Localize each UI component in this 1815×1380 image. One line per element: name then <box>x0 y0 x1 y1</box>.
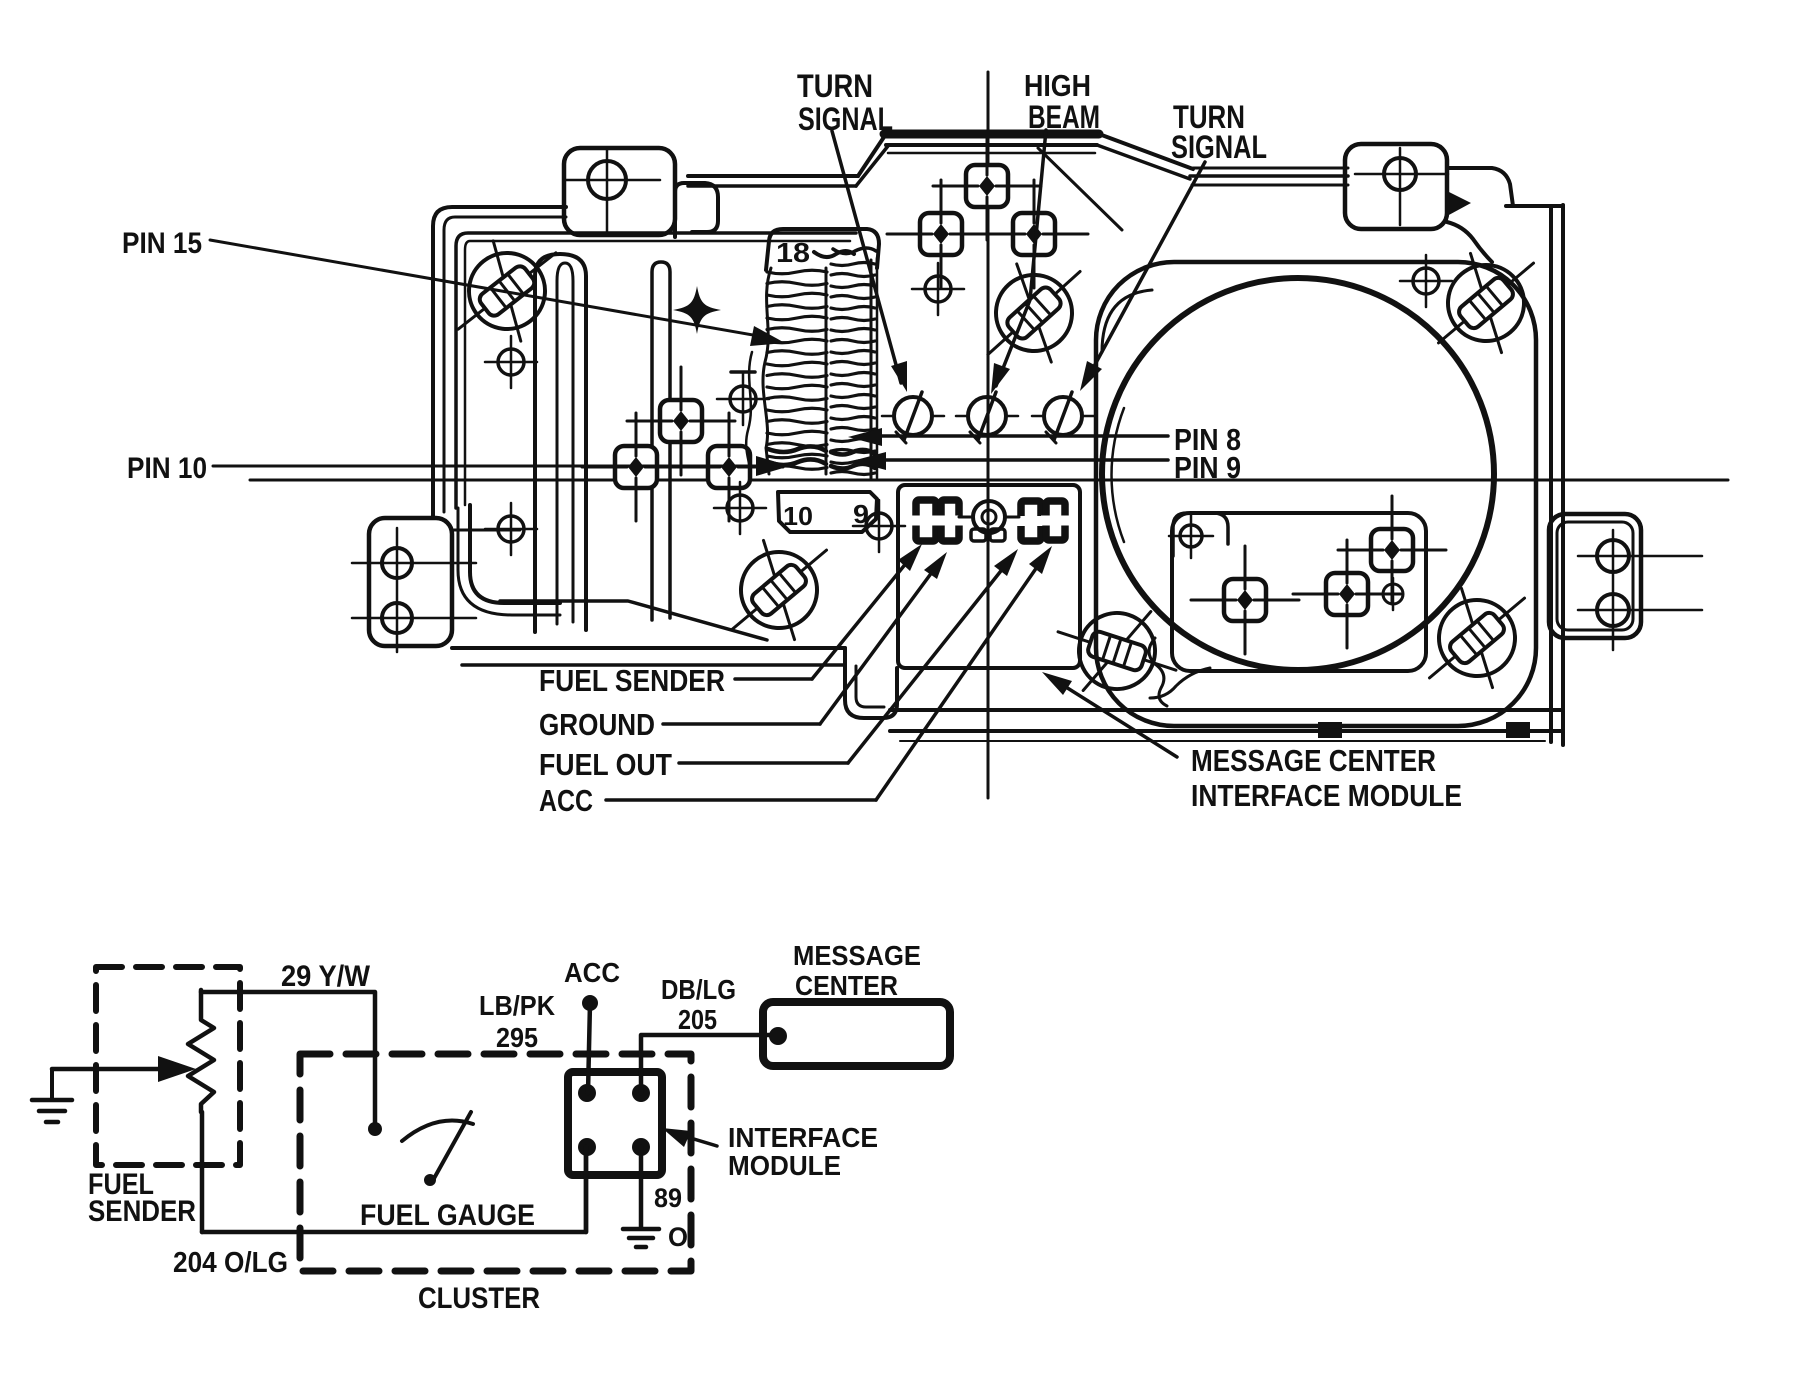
odometer plate <box>1172 513 1426 671</box>
acc leader <box>606 798 876 802</box>
svg-text:MESSAGE: MESSAGE <box>793 940 921 971</box>
cluster top edge: right peak slope <box>1099 134 1193 169</box>
cluster top edge: peak band <box>884 130 1099 139</box>
svg-text:205: 205 <box>678 1004 717 1035</box>
svg-text:89: 89 <box>654 1183 682 1213</box>
fuel out leader <box>679 761 848 765</box>
wire 29 Y/W <box>201 992 375 1122</box>
tab hook piece <box>675 183 718 237</box>
ground symbol fuel sender <box>50 1069 54 1099</box>
message center interface module box <box>898 485 1080 668</box>
high beam leader <box>996 130 1046 386</box>
flex ribbon right column <box>831 263 875 266</box>
turn signal right leader <box>1085 162 1205 383</box>
svg-text:CLUSTER: CLUSTER <box>418 1282 540 1315</box>
svg-text:CENTER: CENTER <box>795 970 898 1001</box>
svg-text:SIGNAL: SIGNAL <box>1171 129 1267 165</box>
fuel sender leader <box>735 677 812 681</box>
bottom-left pin stem <box>584 1147 589 1232</box>
svg-text:DB/LG: DB/LG <box>661 974 736 1005</box>
svg-text:TURN: TURN <box>797 68 873 104</box>
display center cross symbol <box>959 501 1019 533</box>
svg-text:29 Y/W: 29 Y/W <box>281 960 371 993</box>
plate squares <box>1191 546 1299 654</box>
speedometer opening circle <box>1102 278 1494 670</box>
bolt holes bottom-left tab <box>382 548 412 578</box>
PIN 9 leader <box>870 458 1168 462</box>
inner bottom-left corner <box>470 505 560 603</box>
module pins <box>578 1084 596 1102</box>
interface module box <box>568 1072 662 1175</box>
message center module leader <box>1050 677 1177 757</box>
torn squiggle bottom-left of plate <box>1149 638 1167 706</box>
svg-text:FUEL GAUGE: FUEL GAUGE <box>360 1199 535 1232</box>
PIN 8 leader <box>866 434 1168 438</box>
svg-text:10: 10 <box>783 501 813 531</box>
fuel gauge needle <box>402 1120 473 1141</box>
bolt hole top-left tab <box>588 161 626 199</box>
wedge right of tab <box>1447 191 1471 216</box>
svg-text:ACC: ACC <box>539 783 593 818</box>
mounting tab top-right <box>1345 144 1447 229</box>
lamp socket mount squares left <box>627 367 735 475</box>
interface module label leader <box>674 1133 717 1146</box>
turn signal lamp socket left <box>882 392 944 443</box>
svg-text:18: 18 <box>776 237 810 268</box>
svg-text:O: O <box>668 1222 688 1252</box>
twist-lock connector bottom-center <box>1043 586 1191 716</box>
four-point star <box>673 286 721 334</box>
resistor R fuel sender <box>188 990 214 1112</box>
seven segment digits 00 <box>916 500 936 541</box>
svg-text:SENDER: SENDER <box>88 1195 196 1228</box>
svg-text:ACC: ACC <box>564 957 620 988</box>
twist-lock connector center <box>956 236 1112 390</box>
flex ribbon tag 10 9 <box>778 492 877 532</box>
svg-text:MODULE: MODULE <box>728 1150 841 1181</box>
PIN 10 leader <box>213 465 772 468</box>
ground leader <box>663 722 820 726</box>
svg-text:204 O/LG: 204 O/LG <box>173 1247 288 1279</box>
svg-text:PIN 10: PIN 10 <box>127 452 207 485</box>
svg-text:INTERFACE MODULE: INTERFACE MODULE <box>1191 778 1462 813</box>
bottom edge left section <box>452 646 845 650</box>
module ground stem <box>639 1147 644 1227</box>
svg-text:LB/PK: LB/PK <box>479 990 555 1021</box>
mounting tab bottom-left <box>369 518 452 646</box>
twist-lock connector top-right <box>1408 226 1565 379</box>
svg-text:INTERFACE: INTERFACE <box>728 1122 878 1153</box>
inner channel (goalpost) <box>535 254 586 632</box>
cluster top edge: right band <box>1193 167 1348 170</box>
cluster top edge: left roof <box>688 174 858 178</box>
ACC terminal dot and stem <box>582 995 598 1011</box>
turn signal left leader <box>832 131 901 383</box>
ground symbol module <box>623 1227 659 1232</box>
twist-lock connector bottom-right <box>1399 561 1556 714</box>
bottom center hook <box>845 648 897 718</box>
svg-text:FUEL SENDER: FUEL SENDER <box>539 663 725 698</box>
cluster body outline: left outer frame <box>433 207 566 516</box>
torn edge squiggle <box>746 352 752 480</box>
svg-text:SIGNAL: SIGNAL <box>798 101 893 137</box>
turn signal lamp socket right <box>1032 392 1094 443</box>
small cross-circle symbols <box>485 336 537 388</box>
bottom edge right section rails <box>890 708 1562 712</box>
wire ground to resistor wiper <box>52 1067 158 1072</box>
wire: horizontal centerline <box>250 479 1728 482</box>
flex ribbon connector tag 18 <box>766 229 879 270</box>
svg-text:MESSAGE CENTER: MESSAGE CENTER <box>1191 743 1436 778</box>
cluster body outline: left inner frame <box>456 233 856 508</box>
shoulder curve into bezel <box>1447 222 1492 262</box>
flex ribbon left column <box>767 270 827 274</box>
wire resistor bottom down <box>200 1112 205 1232</box>
svg-text:PIN 15: PIN 15 <box>122 227 202 260</box>
fuel sender dashed box <box>96 967 240 1165</box>
gauge terminal dot <box>368 1122 382 1136</box>
high beam lamp socket <box>956 392 1018 443</box>
right bezel rounded square <box>1096 262 1536 726</box>
lamp socket mount squares top <box>887 180 995 288</box>
bolt holes bottom-right tab <box>1597 540 1629 572</box>
wire 204 O/LG bottom run <box>202 1150 586 1232</box>
svg-text:9: 9 <box>853 499 869 529</box>
twist-lock connector top-left <box>429 215 586 367</box>
cluster top edge: left peak slope <box>858 134 886 176</box>
svg-text:GROUND: GROUND <box>539 707 655 742</box>
svg-text:295: 295 <box>496 1022 538 1053</box>
bolt hole top-right tab <box>1384 158 1416 190</box>
svg-text:HIGH: HIGH <box>1024 68 1091 103</box>
mounting tab top-left <box>564 148 675 235</box>
mounting tab bottom-right <box>1549 514 1641 638</box>
cluster dashed box <box>300 1054 691 1271</box>
twist-lock connector bottom-left <box>701 513 858 666</box>
message center box <box>763 1002 950 1066</box>
inner slant panel line <box>500 601 767 640</box>
PIN 15 leader <box>210 240 770 338</box>
right outer frame <box>1549 207 1553 742</box>
svg-text:FUEL OUT: FUEL OUT <box>539 747 672 782</box>
inner slope below band <box>1038 148 1122 230</box>
wire: vertical centerline <box>987 72 990 798</box>
wire DB/LG 205 <box>641 1035 778 1093</box>
svg-text:BEAM: BEAM <box>1028 99 1100 135</box>
svg-text:PIN 9: PIN 9 <box>1174 450 1241 485</box>
second inner channel <box>652 262 670 620</box>
